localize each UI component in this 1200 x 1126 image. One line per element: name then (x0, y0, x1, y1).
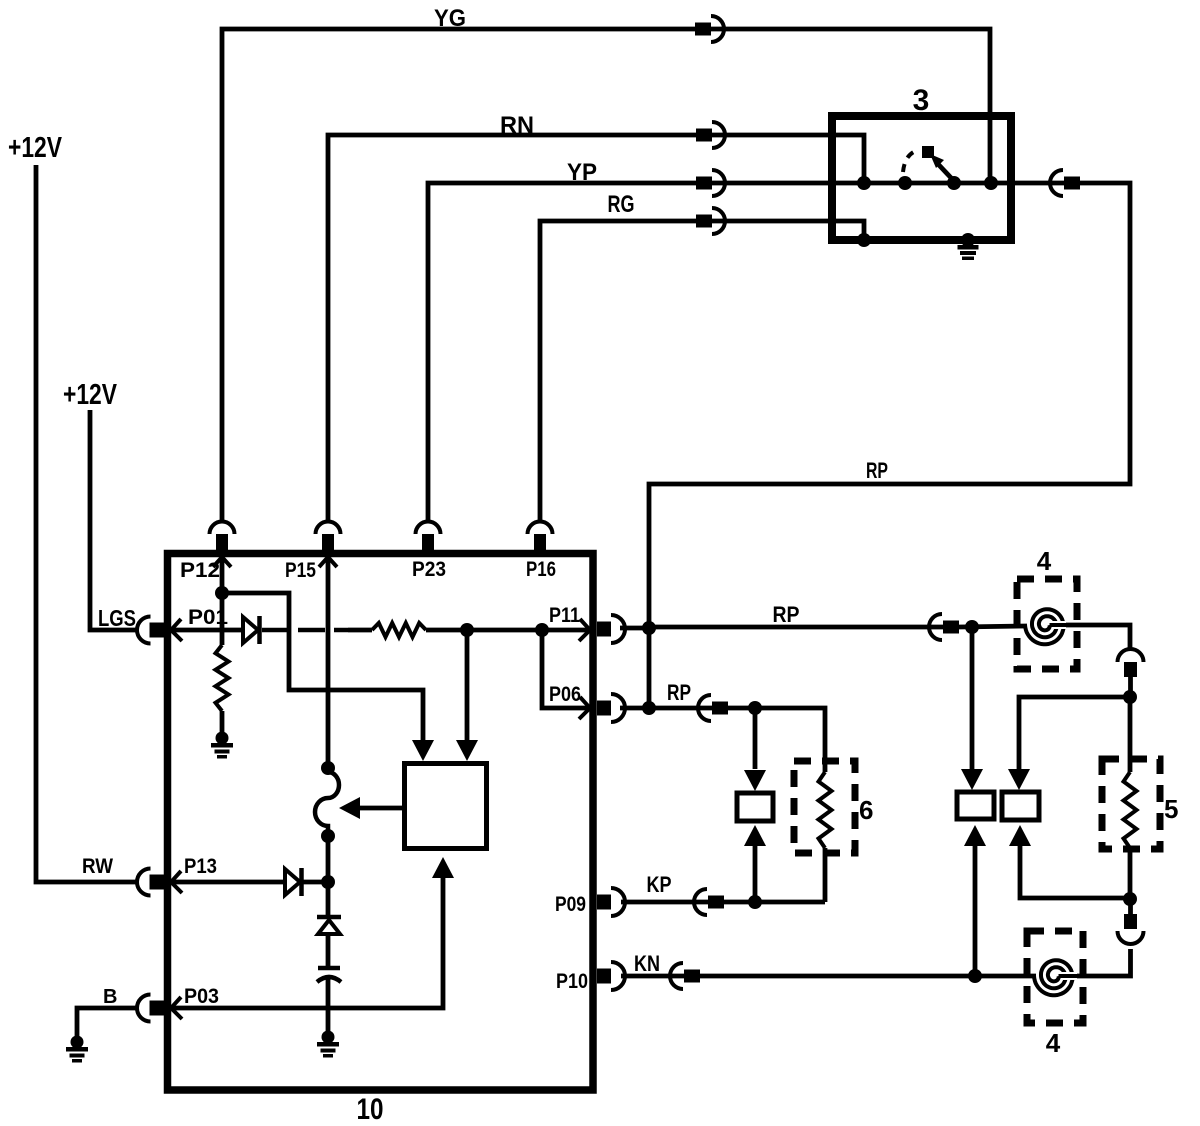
connector switch output (1064, 177, 1080, 190)
wire relay left coil bottom (973, 846, 978, 976)
ignition coil 4 bottom dashed box (1027, 931, 1083, 1023)
zener diode (317, 915, 341, 920)
svg-text:KP: KP (647, 872, 672, 897)
pin P10 (597, 969, 611, 984)
arrow out P13 (171, 871, 182, 893)
ground internal C1 (322, 1031, 335, 1044)
node coil bottom (321, 829, 335, 843)
pin P11 (597, 622, 611, 637)
pin P23 (422, 534, 434, 550)
wire P01 dashed section (262, 628, 348, 633)
svg-text:P23: P23 (412, 558, 446, 581)
svg-text:4: 4 (1037, 546, 1052, 576)
capacitor C1 (318, 966, 340, 971)
node relay6 feed (748, 701, 762, 715)
wire capacitor to ground (326, 979, 331, 1032)
svg-text:P06: P06 (549, 683, 581, 706)
wire coil4 out right (1066, 625, 1130, 650)
relay coil right (1002, 792, 1039, 820)
wire to relay coil right bottom (1020, 846, 1130, 898)
arrow into control block right (456, 740, 478, 761)
switch travel dashed arc (903, 150, 919, 172)
wire P13 line (172, 880, 285, 885)
svg-text:P13: P13 (184, 855, 217, 878)
svg-text:LGS: LGS (98, 605, 136, 631)
wire +12V to RW (36, 165, 138, 882)
switch common line (864, 181, 1011, 186)
node coil feed left (965, 620, 979, 634)
wire RP link P11 to P06 (647, 628, 652, 708)
svg-text:P10: P10 (556, 970, 588, 993)
wire resistor to P11 (426, 628, 588, 633)
arrow into P06 (579, 697, 590, 719)
svg-text:10: 10 (357, 1093, 384, 1126)
svg-text:RW: RW (82, 855, 113, 878)
svg-text:+12V: +12V (63, 379, 118, 411)
wire RN net (328, 135, 864, 523)
ground B (71, 1036, 84, 1049)
svg-text:P12: P12 (180, 559, 220, 582)
ground internal P12 (216, 732, 229, 745)
control block (405, 764, 487, 849)
ground at switch 3 (961, 233, 975, 247)
svg-text:P16: P16 (526, 558, 556, 581)
wire branch to control block (222, 593, 423, 740)
wire node x542 to P06 (542, 630, 588, 708)
arrow out P01 (171, 619, 182, 641)
connector P06 RP (712, 702, 728, 715)
connector vertical right bottom (1124, 914, 1137, 929)
wire to ground (220, 711, 225, 733)
connector RP mid (943, 621, 959, 634)
wire node to connector (1128, 899, 1133, 916)
node KN branch (968, 969, 982, 983)
connector RG inline (696, 215, 712, 228)
connector KN (684, 970, 700, 983)
wire RP: P06 line (620, 706, 714, 711)
svg-text:P09: P09 (555, 893, 586, 916)
node P06 RP (642, 701, 656, 715)
wire KN: coil4 to P10 (621, 974, 1036, 979)
wire YP net (428, 183, 864, 523)
relay 6 coil (737, 793, 773, 821)
resistor R5 (1124, 772, 1137, 848)
pin P12 arrow (213, 557, 231, 567)
wire P01 solid left (172, 628, 243, 633)
pin P09 (597, 895, 611, 910)
resistor 6 dashed box (794, 761, 855, 853)
svg-text:YG: YG (434, 5, 466, 32)
switch box 3 (832, 116, 1011, 240)
arrow out P03 (171, 997, 182, 1019)
wire to relay coil right top (1019, 697, 1130, 769)
wire zener to capacitor (326, 934, 331, 966)
node RP P11 (642, 621, 656, 635)
resistor R6 (819, 772, 832, 848)
svg-text:4: 4 (1046, 1028, 1061, 1058)
svg-text:P15: P15 (285, 559, 316, 582)
node right column top (1123, 690, 1137, 704)
svg-text:5: 5 (1164, 794, 1178, 824)
spiral coil bottom (1034, 960, 1073, 995)
svg-text:YP: YP (567, 159, 597, 186)
node right column bottom (1123, 892, 1137, 906)
wire relay6 coil top (753, 708, 758, 769)
svg-text:RN: RN (500, 112, 534, 139)
wire YG net (222, 29, 990, 523)
connector YP inline (696, 177, 712, 190)
wire P12 internal (220, 550, 225, 645)
node coil top (321, 761, 335, 775)
svg-text:6: 6 (859, 795, 873, 825)
control unit box 10 (168, 554, 594, 1091)
pin P03 (150, 1001, 165, 1016)
svg-text:RP: RP (773, 602, 800, 627)
svg-text:3: 3 (913, 84, 930, 117)
arrow into P11 (579, 619, 590, 641)
relay coil left (957, 792, 994, 819)
svg-text:RP: RP (667, 680, 691, 705)
svg-text:+12V: +12V (8, 132, 63, 164)
connector KP (708, 896, 724, 909)
pin P15 arrow (319, 557, 337, 567)
node KP relay6 (748, 895, 762, 909)
spiral coil top (1025, 609, 1064, 644)
ignition coil 4 top dashed box (1017, 579, 1077, 669)
wire RG net (540, 221, 864, 523)
wire to resistor (348, 628, 372, 633)
svg-text:RG: RG (608, 191, 635, 218)
diode D1 (243, 617, 258, 643)
wire relay left coil top feed (970, 627, 975, 769)
node x542 (535, 623, 549, 637)
node x467 (460, 623, 474, 637)
resistor on P01 line (372, 623, 426, 637)
switch arm pivot square (922, 146, 934, 158)
wire down to lamp 5 (1128, 697, 1133, 772)
node RG on box3 bottom (857, 233, 871, 247)
pin P15 (322, 534, 334, 550)
wire B to ground (77, 1008, 138, 1037)
connector YG inline (695, 23, 711, 36)
connector RN inline (696, 129, 712, 142)
pin P16 (534, 534, 546, 550)
wire KP: P09 to relay 6 (621, 900, 825, 905)
switch movable arm (938, 164, 954, 181)
wire P15 internal (326, 550, 331, 768)
pin P06 (597, 701, 611, 716)
pin P12 (216, 534, 228, 550)
wire RP: switch to P11 line (649, 183, 1130, 622)
svg-text:B: B (103, 986, 117, 1008)
node P13 junction (321, 875, 335, 889)
svg-text:P11: P11 (549, 604, 580, 627)
svg-text:KN: KN (634, 951, 660, 976)
wire P03 line to control block (172, 878, 443, 1008)
resistor on P12 net (216, 645, 229, 711)
wire +12V to LGS (90, 410, 138, 630)
wire to zener (326, 882, 331, 916)
connector vertical right top (1118, 649, 1144, 662)
pin P13 (150, 875, 165, 890)
pin P01 (150, 623, 165, 638)
wire node x467 to control block (465, 630, 470, 740)
node P12 branch (215, 586, 229, 600)
switch contact dots (857, 176, 871, 190)
svg-text:P01: P01 (188, 606, 228, 629)
svg-text:P03: P03 (184, 985, 219, 1008)
wire RP: P11 to ignition coil 4 (620, 626, 649, 631)
arrow into control block left (412, 740, 434, 761)
lamp 5 dashed box (1102, 759, 1160, 849)
thermal coil element (315, 772, 339, 836)
diode D2 (285, 869, 300, 895)
svg-text:RP: RP (866, 458, 888, 483)
wire coil to P13 node (326, 836, 331, 882)
arrow into control block bottom (432, 857, 454, 878)
arrow control block to coil (360, 806, 404, 811)
wire switch output (1011, 181, 1066, 186)
